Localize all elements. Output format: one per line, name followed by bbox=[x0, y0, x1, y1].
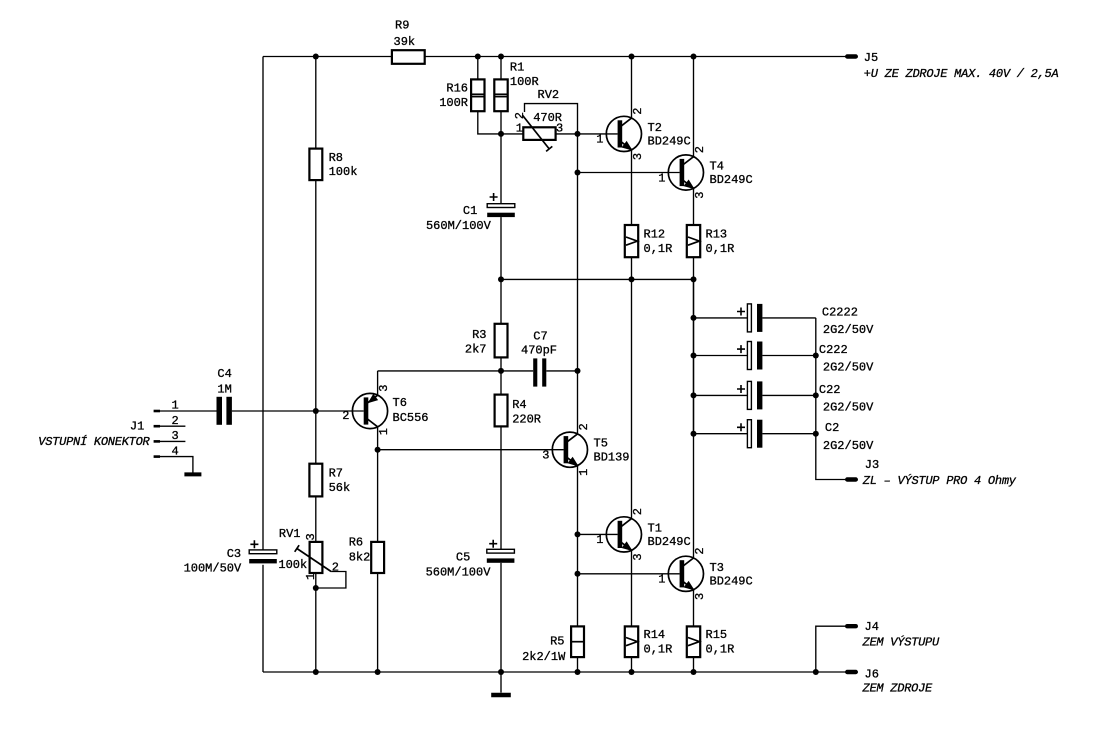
resistor R8 bbox=[309, 149, 357, 181]
svg-text:+U ZE ZDROJE MAX. 40V / 2,5A: +U ZE ZDROJE MAX. 40V / 2,5A bbox=[864, 67, 1059, 81]
svg-text:T4: T4 bbox=[710, 160, 724, 174]
wire T6 collector down bbox=[377, 427, 379, 450]
svg-text:1: 1 bbox=[596, 133, 603, 147]
junction RV2 pin3 / T2 base bbox=[575, 131, 581, 137]
svg-text:3: 3 bbox=[377, 385, 391, 392]
junction C22 left bbox=[691, 392, 697, 398]
wire C7 left bbox=[501, 370, 533, 372]
svg-text:1: 1 bbox=[596, 533, 603, 547]
junction T4 base bbox=[575, 170, 581, 176]
junction T6 collector / T5 base bbox=[375, 447, 381, 453]
svg-text:C3: C3 bbox=[227, 547, 241, 561]
svg-text:ZEM ZDROJE: ZEM ZDROJE bbox=[862, 682, 934, 696]
svg-text:2: 2 bbox=[693, 547, 707, 554]
svg-text:1: 1 bbox=[516, 122, 523, 136]
svg-text:ZEM VÝSTUPU: ZEM VÝSTUPU bbox=[862, 635, 941, 650]
resistor R1 bbox=[494, 61, 538, 112]
resistor R9 bbox=[392, 18, 425, 63]
junction R8 / top rail bbox=[313, 54, 319, 60]
svg-text:1: 1 bbox=[577, 469, 591, 476]
svg-text:2: 2 bbox=[631, 107, 645, 114]
transistor T6 bbox=[342, 385, 428, 436]
junction T5 emitter / T1 base bbox=[575, 531, 581, 537]
junction C1 / mid rail bbox=[498, 276, 504, 282]
capacitor C22 bbox=[694, 381, 875, 414]
junction RV1 wiper loop bbox=[313, 585, 319, 591]
svg-text:J4: J4 bbox=[865, 620, 879, 634]
wire caps right column bbox=[816, 318, 846, 480]
wire caps left column bbox=[693, 279, 695, 433]
svg-text:BD249C: BD249C bbox=[648, 535, 691, 549]
resistor R15 bbox=[687, 626, 735, 657]
svg-text:2: 2 bbox=[693, 146, 707, 153]
wire R16 top bbox=[477, 57, 479, 80]
resistor R14 bbox=[625, 626, 673, 657]
wire T1 collector bbox=[631, 279, 633, 518]
wire left column lower bbox=[262, 565, 264, 672]
wire C7 node to R4 bbox=[500, 371, 502, 395]
wire C4 to T6 base bbox=[232, 410, 364, 412]
wire T1 emitter bbox=[631, 550, 633, 626]
transistor T3 bbox=[578, 547, 753, 600]
svg-text:T2: T2 bbox=[648, 121, 662, 135]
svg-text:BD249C: BD249C bbox=[710, 173, 753, 187]
svg-text:RV2: RV2 bbox=[538, 88, 560, 102]
svg-text:1: 1 bbox=[172, 399, 179, 413]
svg-text:C5: C5 bbox=[456, 551, 470, 565]
svg-text:J5: J5 bbox=[864, 51, 878, 65]
wire J1 pin1 to C4 bbox=[160, 410, 217, 412]
junction T5 emitter / T3 base bbox=[575, 571, 581, 577]
svg-text:3: 3 bbox=[172, 429, 179, 443]
svg-text:2k7: 2k7 bbox=[465, 342, 487, 356]
junction R6 / bottom rail bbox=[375, 669, 381, 675]
svg-text:C2222: C2222 bbox=[822, 305, 858, 319]
junction J4 / bottom rail bbox=[813, 669, 819, 675]
svg-text:470pF: 470pF bbox=[521, 344, 557, 358]
svg-text:2G2/50V: 2G2/50V bbox=[823, 439, 874, 453]
svg-text:T1: T1 bbox=[648, 521, 662, 535]
svg-text:100R: 100R bbox=[510, 75, 539, 89]
svg-text:R7: R7 bbox=[329, 466, 343, 480]
svg-text:560M/100V: 560M/100V bbox=[426, 219, 492, 233]
svg-text:1: 1 bbox=[658, 573, 665, 587]
svg-text:C1: C1 bbox=[463, 204, 477, 218]
wire R13 bottom bbox=[693, 257, 695, 279]
junction R12 / mid rail bbox=[629, 276, 635, 282]
transistor T5 bbox=[378, 423, 630, 476]
transistor T1 bbox=[578, 508, 691, 561]
junction T4 collector / top rail bbox=[691, 54, 697, 60]
connector J1 bbox=[38, 399, 193, 473]
resistor R3 bbox=[465, 324, 508, 358]
junction C2 left bbox=[691, 431, 697, 437]
svg-text:100k: 100k bbox=[329, 165, 358, 179]
svg-text:3: 3 bbox=[304, 533, 318, 540]
junction C7 / T5 collector bbox=[575, 368, 581, 374]
wire R16 bottom bbox=[478, 111, 501, 134]
wire T6 emitter up bbox=[377, 371, 379, 395]
svg-text:2k2/1W: 2k2/1W bbox=[522, 650, 566, 664]
junction T2 collector / top rail bbox=[629, 54, 635, 60]
wire T4 emitter bbox=[693, 188, 695, 225]
wire R15 bottom bbox=[693, 657, 695, 672]
wire C1 to mid rail bbox=[500, 217, 502, 279]
svg-text:R1: R1 bbox=[510, 61, 524, 75]
svg-text:3: 3 bbox=[631, 553, 645, 560]
svg-text:T5: T5 bbox=[594, 437, 608, 451]
wire R12 bottom bbox=[631, 257, 633, 279]
svg-text:2: 2 bbox=[513, 112, 527, 119]
svg-text:R6: R6 bbox=[349, 536, 363, 550]
svg-text:8k2: 8k2 bbox=[349, 551, 371, 565]
resistor R4 bbox=[495, 395, 541, 427]
svg-text:0,1R: 0,1R bbox=[706, 242, 735, 256]
svg-text:BD139: BD139 bbox=[594, 450, 630, 464]
svg-text:J1: J1 bbox=[130, 419, 144, 433]
junction input / R8-R7 node bbox=[313, 408, 319, 414]
wire RV1 to bottom bbox=[315, 573, 317, 672]
svg-text:T3: T3 bbox=[710, 561, 724, 575]
svg-text:R16: R16 bbox=[446, 82, 468, 96]
wire R1 top bbox=[500, 57, 502, 80]
junction C222 left bbox=[691, 353, 697, 359]
svg-text:0,1R: 0,1R bbox=[644, 643, 673, 657]
wire R3 to C7 node bbox=[500, 357, 502, 371]
wire top rail bbox=[263, 56, 846, 58]
svg-text:3: 3 bbox=[631, 153, 645, 160]
junction R15 / bottom rail bbox=[691, 669, 697, 675]
svg-text:R3: R3 bbox=[472, 328, 486, 342]
port J6 bbox=[847, 668, 933, 696]
svg-text:RV1: RV1 bbox=[279, 527, 301, 541]
svg-text:BD249C: BD249C bbox=[648, 135, 691, 149]
svg-text:C2: C2 bbox=[825, 421, 839, 435]
ground main bbox=[491, 672, 511, 695]
wire mid rail bbox=[501, 278, 694, 280]
svg-text:R4: R4 bbox=[512, 398, 526, 412]
wire T6 emitter feed bbox=[378, 370, 501, 372]
capacitor C4 bbox=[217, 367, 232, 425]
wire R5 bottom bbox=[577, 657, 579, 672]
wire bottom rail bbox=[263, 671, 846, 673]
svg-text:3: 3 bbox=[556, 122, 563, 136]
capacitor C222 bbox=[694, 342, 875, 375]
wire R14 bottom bbox=[631, 657, 633, 672]
wire left column upper bbox=[262, 57, 264, 550]
capacitor C3 bbox=[184, 540, 277, 575]
wire T3 emitter bbox=[693, 590, 695, 627]
svg-text:J6: J6 bbox=[865, 668, 879, 682]
capacitor C7 bbox=[521, 330, 557, 387]
svg-text:2G2/50V: 2G2/50V bbox=[823, 401, 874, 415]
svg-text:BC556: BC556 bbox=[393, 411, 429, 425]
svg-text:39k: 39k bbox=[394, 35, 416, 49]
junction R1-R16-RV2 node bbox=[498, 131, 504, 137]
svg-text:BD249C: BD249C bbox=[710, 574, 753, 588]
svg-text:C222: C222 bbox=[819, 343, 848, 357]
svg-text:C4: C4 bbox=[217, 367, 231, 381]
wire RV1 wiper loop bbox=[316, 572, 346, 589]
junction C2222 left bbox=[691, 315, 697, 321]
svg-text:R14: R14 bbox=[644, 628, 666, 642]
resistor R12 bbox=[625, 225, 673, 257]
svg-text:2: 2 bbox=[342, 409, 349, 423]
svg-text:100R: 100R bbox=[439, 96, 468, 110]
wire R7 to RV1 bbox=[315, 496, 317, 542]
ground J1 bbox=[184, 472, 201, 476]
svg-text:2G2/50V: 2G2/50V bbox=[823, 361, 874, 375]
svg-text:1: 1 bbox=[377, 428, 391, 435]
wire C7 right bbox=[546, 370, 577, 372]
junction C222 right bbox=[813, 353, 819, 359]
wire R4 to C5 bbox=[500, 426, 502, 549]
svg-text:R15: R15 bbox=[706, 628, 728, 642]
wire R8 to R7 bbox=[315, 180, 317, 464]
svg-text:560M/100V: 560M/100V bbox=[426, 566, 492, 580]
resistor R5 bbox=[522, 626, 584, 664]
svg-text:ZL – VÝSTUP PRO 4 Ohmy: ZL – VÝSTUP PRO 4 Ohmy bbox=[862, 473, 1017, 488]
svg-text:3: 3 bbox=[693, 191, 707, 198]
wire J4 bbox=[816, 626, 846, 672]
wire T3 collector bbox=[693, 279, 695, 558]
wire T4 collector bbox=[693, 57, 695, 157]
wire T2 collector bbox=[631, 57, 633, 119]
junction R7-RV1 / bottom rail bbox=[313, 669, 319, 675]
wire T2 emitter bbox=[631, 150, 633, 225]
junction R14 / bottom rail bbox=[629, 669, 635, 675]
capacitor C2 bbox=[694, 420, 875, 453]
wire R8 column bbox=[315, 57, 317, 149]
svg-text:100k: 100k bbox=[278, 558, 307, 572]
transistor T4 bbox=[578, 146, 753, 199]
capacitor C5 bbox=[426, 540, 515, 580]
resistor R7 bbox=[309, 464, 350, 497]
svg-text:VSTUPNÍ KONEKTOR: VSTUPNÍ KONEKTOR bbox=[38, 434, 150, 449]
svg-text:R9: R9 bbox=[395, 18, 409, 32]
svg-text:R5: R5 bbox=[550, 635, 564, 649]
transistor T2 bbox=[578, 107, 691, 160]
svg-text:220R: 220R bbox=[512, 412, 541, 426]
junction R13 / mid rail bbox=[691, 276, 697, 282]
svg-text:0,1R: 0,1R bbox=[706, 643, 735, 657]
capacitor C1 bbox=[426, 193, 515, 233]
svg-text:2: 2 bbox=[631, 508, 645, 515]
svg-text:0,1R: 0,1R bbox=[644, 242, 673, 256]
svg-text:1: 1 bbox=[658, 171, 665, 185]
port J4 bbox=[847, 620, 940, 649]
svg-text:T6: T6 bbox=[393, 396, 407, 410]
wire T5 collector bbox=[577, 371, 579, 434]
wire mid rail to R3 bbox=[500, 279, 502, 323]
resistor R6 bbox=[349, 536, 384, 574]
port J5 bbox=[847, 51, 1058, 81]
svg-text:J3: J3 bbox=[865, 458, 879, 472]
wire R6 to bottom bbox=[377, 573, 379, 672]
wire R1 to C1 bbox=[500, 111, 502, 204]
svg-text:56k: 56k bbox=[329, 481, 351, 495]
svg-text:3: 3 bbox=[542, 449, 549, 463]
junction R1 / top rail bbox=[498, 54, 504, 60]
svg-text:C7: C7 bbox=[533, 330, 547, 344]
potentiometer RV2 bbox=[501, 88, 578, 151]
junction R16 / top rail bbox=[475, 54, 481, 60]
junction C22 right bbox=[813, 392, 819, 398]
resistor R13 bbox=[687, 225, 735, 257]
junction C2 right bbox=[813, 431, 819, 437]
svg-text:1M: 1M bbox=[217, 382, 231, 396]
svg-text:R8: R8 bbox=[329, 151, 343, 165]
wire C5 to bottom bbox=[500, 563, 502, 672]
potentiometer RV1 bbox=[278, 527, 339, 580]
svg-text:C22: C22 bbox=[819, 383, 841, 397]
svg-text:R12: R12 bbox=[644, 228, 666, 242]
wire node 577 column bbox=[577, 134, 579, 371]
junction C5 / bottom rail bbox=[498, 669, 504, 675]
svg-text:2: 2 bbox=[577, 423, 591, 430]
svg-text:R13: R13 bbox=[706, 228, 728, 242]
svg-text:2G2/50V: 2G2/50V bbox=[823, 323, 874, 337]
port J3 bbox=[847, 458, 1017, 488]
svg-text:2: 2 bbox=[172, 414, 179, 428]
capacitor C2222 bbox=[694, 304, 875, 337]
svg-text:3: 3 bbox=[693, 593, 707, 600]
junction R3-C7 node bbox=[498, 368, 504, 374]
svg-text:100M/50V: 100M/50V bbox=[184, 562, 242, 576]
junction R5 / bottom rail bbox=[575, 669, 581, 675]
resistor R16 bbox=[439, 79, 484, 111]
wire T5 emitter bbox=[577, 466, 579, 627]
svg-text:2: 2 bbox=[332, 561, 339, 575]
svg-text:4: 4 bbox=[172, 444, 179, 458]
wire T6 to R6 bbox=[377, 450, 379, 542]
